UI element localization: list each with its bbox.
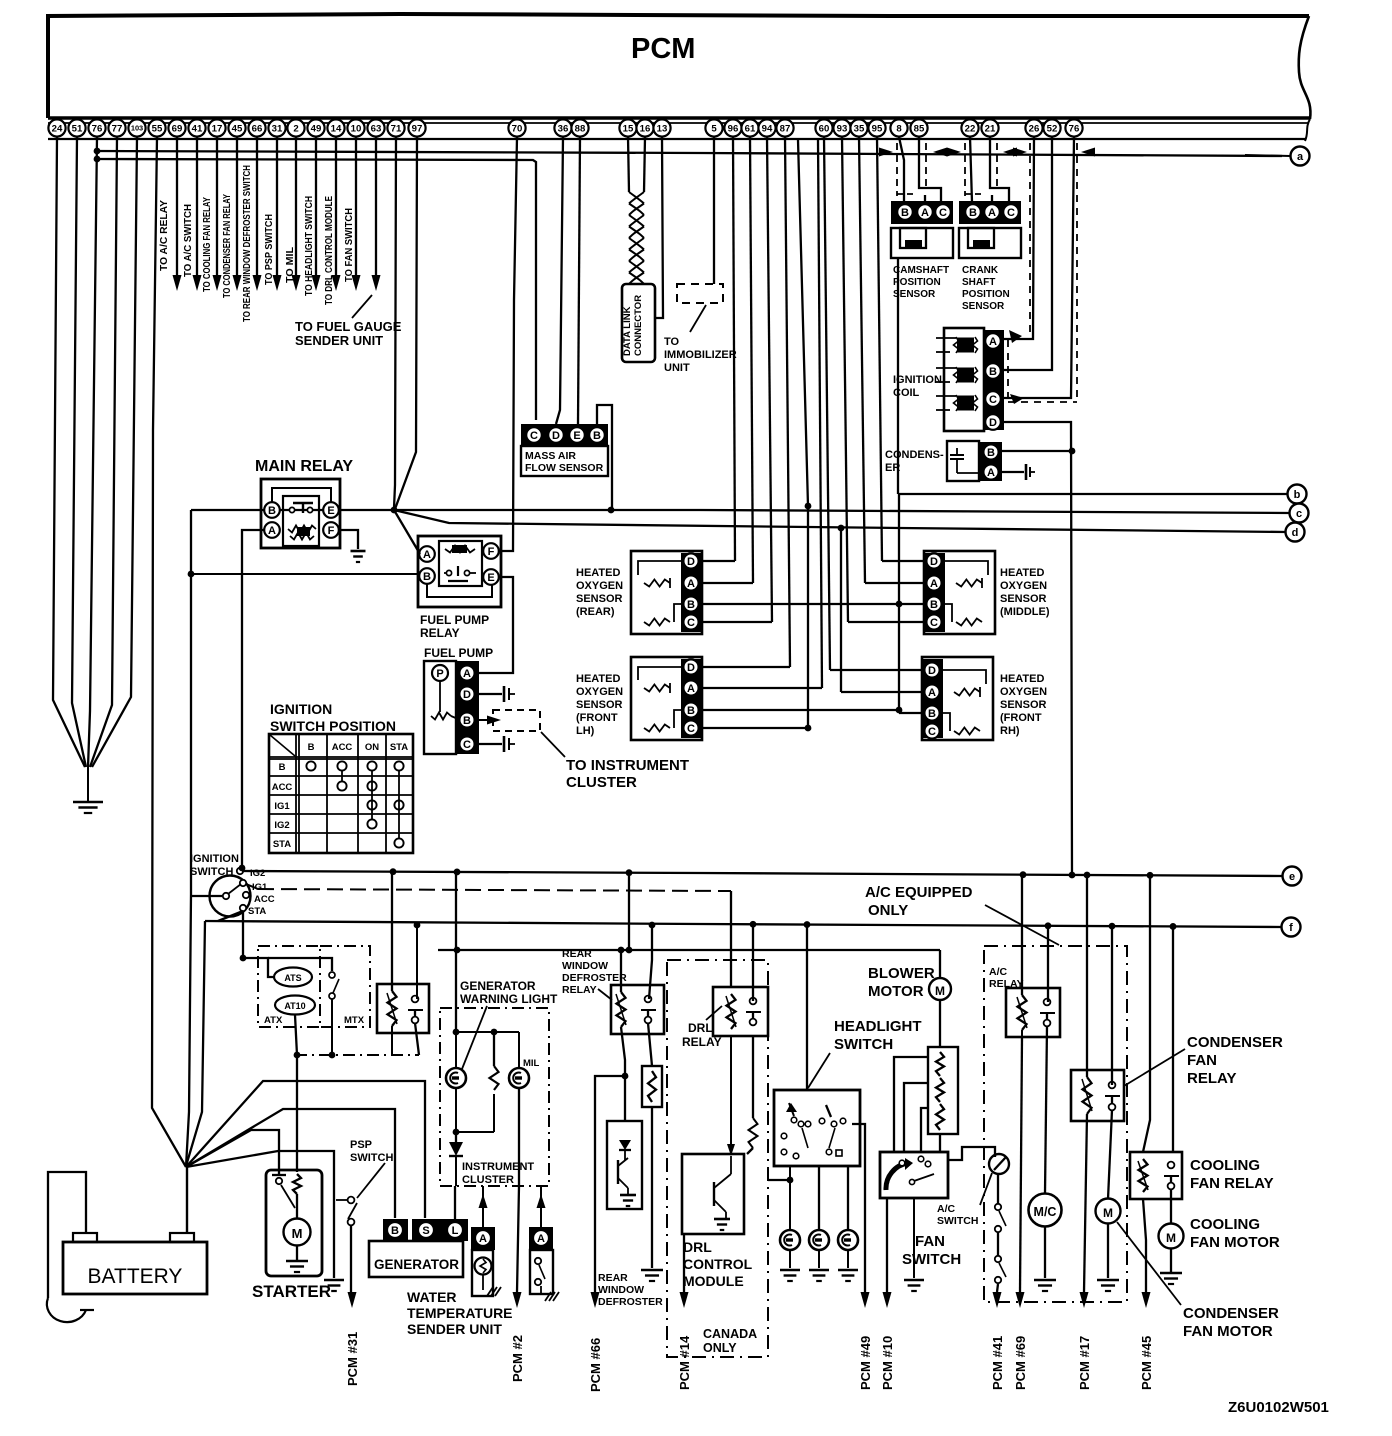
svg-text:IG2: IG2	[274, 820, 289, 831]
heated oxygen sensor (rear)	[631, 551, 702, 634]
wire RH O2 D stub	[830, 669, 922, 671]
svg-text:POSITION: POSITION	[962, 289, 1010, 300]
svg-text:B: B	[463, 715, 471, 727]
svg-text:MODULE: MODULE	[683, 1273, 744, 1289]
PCM pin 76	[1065, 119, 1082, 136]
PCM pin 13	[653, 119, 670, 136]
svg-text:FUEL PUMP: FUEL PUMP	[424, 646, 493, 660]
PCM pin 61	[741, 119, 758, 136]
PCM pin 63	[367, 119, 384, 136]
capacitor on C	[503, 736, 506, 752]
svg-text:B: B	[989, 366, 997, 378]
wire mid O2 A stub	[865, 582, 924, 584]
PCM pin 8	[890, 119, 907, 136]
diode in cluster	[455, 1132, 457, 1142]
PCM pin 96	[724, 119, 741, 136]
wire e to condenser relay coil	[1086, 875, 1088, 1077]
PCM pin 10	[347, 119, 364, 136]
svg-text:85: 85	[914, 123, 925, 134]
arrow PCM#49	[861, 1292, 870, 1308]
PCM pin 2	[287, 119, 304, 136]
wire pin103 to ground	[92, 137, 137, 767]
arrow PCM#14	[680, 1292, 689, 1308]
wire pin24 to ground	[53, 137, 85, 767]
ATS oval	[274, 968, 312, 987]
wire RH O2 B stub	[899, 712, 922, 714]
svg-text:CLUSTER: CLUSTER	[462, 1174, 514, 1186]
PCM pin 66	[248, 119, 265, 136]
twisted pair	[629, 192, 644, 204]
wire mid O2 D stub	[882, 560, 924, 562]
svg-text:CONDENS-: CONDENS-	[885, 449, 944, 461]
svg-text:SENSOR: SENSOR	[576, 699, 623, 711]
wire STA to ATS/MTX	[243, 958, 274, 977]
svg-text:REAR: REAR	[598, 1272, 628, 1284]
svg-text:FAN RELAY: FAN RELAY	[1190, 1175, 1274, 1192]
relay A/C	[1006, 988, 1060, 1037]
heated oxygen sensor (front LH)	[631, 657, 702, 740]
svg-text:HEATED: HEATED	[1000, 567, 1044, 579]
svg-text:TO REAR WINDOW DEFROSTER SWITC: TO REAR WINDOW DEFROSTER SWITCH	[241, 165, 253, 322]
svg-text:DRL: DRL	[683, 1239, 712, 1255]
svg-text:A: A	[268, 525, 276, 537]
svg-text:CONTROL: CONTROL	[683, 1256, 753, 1272]
wire DRL coil to module	[730, 1036, 732, 1146]
PCM pin 88	[571, 119, 588, 136]
svg-text:ER: ER	[885, 462, 900, 474]
PCM pin 51	[68, 119, 85, 136]
arrow PCM#10	[883, 1292, 892, 1308]
svg-text:IMMOBILIZER: IMMOBILIZER	[664, 349, 737, 361]
wire/arrow TO A/C RELAY	[176, 137, 178, 278]
heated oxygen sensor (middle)	[924, 551, 995, 634]
svg-text:15: 15	[623, 123, 634, 134]
PCM pin 87	[776, 119, 793, 136]
wire e to cooling relay coil	[1143, 876, 1150, 1152]
svg-text:87: 87	[780, 123, 791, 134]
battery fan wires	[186, 1081, 425, 1218]
svg-text:AT10: AT10	[284, 1001, 305, 1011]
svg-text:93: 93	[837, 123, 848, 134]
wire AT10 to starter solenoid	[295, 1015, 297, 1172]
svg-text:60: 60	[819, 123, 830, 134]
svg-text:C: C	[989, 394, 997, 406]
crankshaft position sensor	[959, 201, 1021, 224]
PCM pin 35	[850, 119, 867, 136]
wire RH O2 A stub	[841, 691, 922, 693]
battery negative cable	[48, 1172, 86, 1298]
wire STA drop to ATX	[242, 911, 244, 958]
shield arrows on bus a	[879, 148, 893, 157]
svg-text:51: 51	[72, 123, 83, 134]
switch connector A	[529, 1227, 553, 1250]
wire bus c tap to LH O2 C	[798, 140, 808, 728]
svg-text:76: 76	[1069, 123, 1080, 134]
PCM pin 85	[910, 119, 927, 136]
svg-text:S: S	[422, 1225, 429, 1237]
svg-text:103: 103	[131, 124, 143, 133]
wire cluster to water temp A	[482, 1186, 484, 1227]
svg-text:MASS AIR: MASS AIR	[525, 450, 576, 462]
wire pin93 to mid O2 C	[842, 137, 848, 622]
PCM pin 71	[387, 119, 404, 136]
wire pin15	[628, 137, 629, 192]
svg-text:M: M	[1166, 1231, 1176, 1245]
relay starter interlock	[377, 984, 429, 1033]
to instrument cluster label	[541, 732, 565, 757]
PCM pin 97	[408, 119, 425, 136]
wire MAF feed	[97, 159, 536, 420]
instrument cluster dashed box	[440, 1008, 549, 1186]
svg-text:SENDER UNIT: SENDER UNIT	[407, 1321, 502, 1337]
cluster resistor	[493, 1032, 495, 1066]
ground condenser fan motor	[1097, 1279, 1119, 1282]
svg-text:24: 24	[52, 123, 63, 134]
wire bus c to battery	[186, 510, 191, 1167]
svg-text:B: B	[308, 742, 315, 753]
svg-text:d: d	[1292, 527, 1299, 539]
svg-text:FLOW SENSOR: FLOW SENSOR	[525, 462, 604, 474]
ATX dash-dot box	[258, 946, 320, 1027]
svg-text:F: F	[328, 525, 335, 537]
svg-text:RH): RH)	[1000, 725, 1020, 737]
PSP switch	[333, 1196, 335, 1278]
generator warning lamp	[455, 1032, 457, 1068]
svg-text:RELAY: RELAY	[1187, 1070, 1236, 1087]
svg-text:(FRONT: (FRONT	[576, 712, 618, 724]
svg-text:PCM #14: PCM #14	[677, 1335, 692, 1390]
cluster lower bus	[455, 1088, 457, 1132]
svg-text:WATER: WATER	[407, 1289, 457, 1305]
svg-text:SHAFT: SHAFT	[962, 277, 995, 288]
starter	[266, 1170, 322, 1276]
wire fuel pump D to capacitor	[479, 693, 502, 695]
svg-text:70: 70	[512, 123, 523, 134]
data link connector	[622, 284, 655, 362]
PCM pin 77	[108, 119, 125, 136]
svg-text:TO INSTRUMENT: TO INSTRUMENT	[566, 757, 689, 774]
svg-text:A: A	[479, 1233, 487, 1245]
svg-text:D: D	[687, 662, 695, 674]
arrow PCM#31	[348, 1292, 357, 1308]
wire f to DRL contact	[752, 926, 754, 1001]
wire/arrow TO A/C SWITCH	[196, 137, 198, 278]
wire LH O2 D stub	[703, 666, 790, 668]
wire f to relay contact	[416, 925, 418, 999]
svg-text:IG2: IG2	[250, 868, 265, 879]
svg-text:e: e	[1289, 871, 1295, 883]
svg-text:COIL: COIL	[893, 387, 920, 399]
svg-text:CONDENSER: CONDENSER	[1187, 1034, 1283, 1051]
svg-text:PCM #31: PCM #31	[345, 1332, 360, 1386]
junction bus c	[391, 507, 398, 514]
svg-text:77: 77	[112, 123, 123, 134]
wire pin51 to ground	[72, 137, 86, 767]
svg-text:SWITCH: SWITCH	[350, 1152, 393, 1164]
svg-text:B: B	[969, 207, 977, 219]
svg-text:TO HEADLIGHT SWITCH: TO HEADLIGHT SWITCH	[303, 196, 315, 296]
wire MTX to bus	[331, 999, 333, 1055]
svg-text:B: B	[930, 599, 938, 611]
svg-text:B: B	[391, 1225, 399, 1237]
wire cooling coil to PCM#45	[1143, 1199, 1146, 1292]
svg-text:CONNECTOR: CONNECTOR	[633, 295, 644, 356]
svg-text:C: C	[687, 723, 695, 735]
svg-text:E: E	[487, 572, 494, 584]
svg-text:B: B	[687, 599, 695, 611]
svg-text:SENSOR: SENSOR	[1000, 699, 1047, 711]
ground PSP	[324, 1279, 344, 1282]
svg-text:HEADLIGHT: HEADLIGHT	[834, 1018, 922, 1035]
svg-text:A: A	[423, 549, 431, 561]
wire AC contact to MC	[1045, 1026, 1047, 1193]
svg-text:13: 13	[657, 123, 668, 134]
svg-text:C: C	[928, 726, 936, 738]
capacitor on D	[503, 686, 506, 702]
wire LH O2 C stub	[703, 727, 808, 729]
arrow PCM#69	[1016, 1292, 1025, 1308]
svg-text:35: 35	[854, 123, 865, 134]
svg-text:SENSOR: SENSOR	[1000, 593, 1047, 605]
svg-text:A/C: A/C	[989, 966, 1008, 978]
heated oxygen sensor (front RH)	[922, 657, 993, 740]
svg-text:D: D	[989, 417, 997, 429]
wire e to relay coil	[391, 873, 393, 991]
wire rear O2 C stub	[703, 621, 772, 623]
wire battery positive	[186, 1167, 188, 1233]
svg-text:TO FAN SWITCH: TO FAN SWITCH	[343, 208, 355, 282]
wire e drop to bus950	[628, 873, 630, 950]
PCM pin 41	[188, 119, 205, 136]
PCM pin 70	[508, 119, 525, 136]
wire fan switch to AC switch	[948, 1147, 995, 1160]
svg-text:A: A	[463, 668, 471, 680]
svg-text:TO DRL CONTROL MODULE: TO DRL CONTROL MODULE	[323, 196, 335, 305]
svg-text:SWITCH: SWITCH	[834, 1036, 893, 1053]
wire defroster relay contact to fuse	[648, 1023, 652, 1066]
wire pin70 to fuel pump relay F	[499, 137, 517, 551]
svg-text:TO A/C SWITCH: TO A/C SWITCH	[182, 204, 194, 277]
svg-text:14: 14	[331, 123, 342, 134]
wire pin76 to ground	[88, 137, 97, 767]
svg-text:HEATED: HEATED	[1000, 673, 1044, 685]
svg-text:M: M	[1103, 1206, 1113, 1220]
wire to rear window defroster	[651, 1107, 653, 1268]
svg-text:DEFROSTER: DEFROSTER	[598, 1296, 663, 1308]
svg-text:55: 55	[152, 123, 163, 134]
PCM pin 45	[228, 119, 245, 136]
wire condenser B to bus	[1002, 450, 1072, 452]
camshaft sensor shield dashes	[896, 143, 898, 196]
svg-text:c: c	[1296, 508, 1302, 520]
svg-text:A: A	[930, 578, 938, 590]
svg-text:SENSOR: SENSOR	[893, 289, 936, 300]
node d	[1286, 523, 1305, 542]
svg-text:FUEL PUMP: FUEL PUMP	[420, 613, 489, 627]
camshaft position sensor	[891, 201, 953, 224]
PCM pin 49	[307, 119, 324, 136]
immobilizer dashed box	[677, 284, 723, 303]
water temperature sender unit	[471, 1227, 495, 1250]
fan switch box	[880, 1152, 948, 1198]
wire/arrow TO PSP SWITCH	[276, 137, 278, 278]
svg-text:STA: STA	[390, 742, 408, 753]
PCM pin 55	[148, 119, 165, 136]
svg-text:IGNITION: IGNITION	[270, 701, 332, 717]
defroster fuse	[642, 1066, 662, 1107]
wire pin85 to camshaft C	[919, 137, 941, 202]
svg-text:E: E	[573, 430, 580, 442]
svg-text:TEMPERATURE: TEMPERATURE	[407, 1305, 513, 1321]
battery	[73, 1233, 97, 1242]
wire main relay F to ground	[338, 530, 358, 549]
svg-text:M: M	[935, 984, 945, 998]
svg-text:ATX: ATX	[264, 1015, 283, 1026]
wire condenser A to capacitor	[1002, 471, 1024, 473]
PCM pin 26	[1025, 119, 1042, 136]
wire LH O2 B stub	[703, 709, 899, 711]
svg-text:10: 10	[351, 123, 362, 134]
wire cooling contact to motor	[1170, 1189, 1172, 1224]
svg-text:C: C	[463, 739, 471, 751]
svg-text:DEFROSTER: DEFROSTER	[562, 972, 627, 984]
wire tap to ignition switch B	[190, 895, 222, 897]
wire pin94 to rear O2 C	[767, 137, 772, 622]
arrow PCM#17	[1080, 1292, 1089, 1308]
wire AC coil to PCM#69	[1021, 1030, 1023, 1037]
wire/arrow TO HEADLIGHT SWITCH	[315, 137, 317, 278]
svg-text:ON: ON	[365, 742, 379, 753]
svg-text:FAN: FAN	[1187, 1052, 1217, 1069]
PCM pin 69	[168, 119, 185, 136]
svg-text:CLUSTER: CLUSTER	[566, 774, 637, 791]
svg-text:OXYGEN: OXYGEN	[1000, 686, 1047, 698]
svg-text:a: a	[1297, 151, 1304, 163]
svg-text:INSTRUMENT: INSTRUMENT	[462, 1161, 534, 1173]
svg-text:B: B	[901, 207, 909, 219]
svg-text:16: 16	[640, 123, 651, 134]
svg-text:A: A	[989, 336, 997, 348]
wire fuel pump B to instrument cluster	[479, 719, 489, 721]
wire sense to PCM#66	[595, 1076, 625, 1292]
wire pin8 to camshaft B	[899, 137, 904, 202]
arrow PCM#2	[513, 1292, 522, 1308]
svg-text:BLOWER: BLOWER	[868, 965, 935, 982]
wire/arrow TO COOLING FAN RELAY	[216, 137, 218, 278]
wire pin71 to bus junction	[394, 137, 396, 508]
arrow PCM#45	[1142, 1292, 1151, 1308]
wire pin88 to MAF E	[578, 137, 580, 424]
svg-text:A: A	[687, 578, 695, 590]
blower motor	[939, 950, 941, 978]
svg-text:76: 76	[92, 123, 103, 134]
svg-text:63: 63	[371, 123, 382, 134]
PCM pin 16	[636, 119, 653, 136]
ignition switch	[210, 876, 251, 917]
arrow PCM#41	[993, 1292, 1002, 1308]
crankshaft sensor shield dashes	[964, 143, 966, 196]
svg-text:ACC: ACC	[254, 894, 275, 905]
wire pin16	[644, 137, 645, 192]
svg-text:ACC: ACC	[332, 742, 353, 753]
wire headlight to PCM#49	[852, 1124, 865, 1292]
condenser	[947, 441, 979, 481]
svg-text:(REAR): (REAR)	[576, 606, 615, 618]
svg-text:TO CONDENSER FAN RELAY: TO CONDENSER FAN RELAY	[221, 194, 233, 298]
svg-text:D: D	[552, 430, 560, 442]
svg-text:SWITCH: SWITCH	[902, 1251, 961, 1268]
relay MAIN RELAY	[261, 479, 340, 548]
svg-text:PCM #41: PCM #41	[990, 1336, 1005, 1390]
wire e to cluster bus	[455, 873, 457, 1032]
svg-text:CAMSHAFT: CAMSHAFT	[893, 265, 949, 276]
svg-text:CRANK: CRANK	[962, 265, 999, 276]
wire module to PCM#14	[683, 1234, 685, 1292]
PCM pin 103	[128, 119, 145, 136]
PCM pin 60	[815, 119, 832, 136]
wire bus c	[191, 510, 1290, 513]
svg-text:A/C: A/C	[937, 1203, 956, 1215]
svg-text:PCM #17: PCM #17	[1077, 1336, 1092, 1390]
stub camshaft A	[924, 195, 926, 202]
svg-text:FAN MOTOR: FAN MOTOR	[1183, 1323, 1273, 1340]
wire bus b	[898, 493, 1288, 495]
svg-text:b: b	[1294, 489, 1301, 501]
svg-text:M/C: M/C	[1034, 1205, 1057, 1219]
svg-text:22: 22	[965, 123, 976, 134]
wire fuel pump C to capacitor	[479, 743, 502, 745]
PCM pin 5	[705, 119, 722, 136]
wire bus d	[394, 510, 1286, 532]
wire mid O2 C stub	[848, 621, 924, 623]
wire bus IG1	[246, 884, 258, 889]
svg-text:8: 8	[896, 123, 902, 134]
wire pin22 to crank B	[970, 137, 972, 202]
svg-text:41: 41	[192, 123, 203, 134]
svg-text:COOLING: COOLING	[1190, 1216, 1260, 1233]
svg-text:A: A	[537, 1233, 545, 1245]
svg-text:WINDOW: WINDOW	[562, 960, 608, 972]
stub crank A	[991, 195, 993, 202]
svg-text:L: L	[452, 1225, 459, 1237]
headlight switch box	[774, 1090, 860, 1166]
wire fan switch ground	[913, 1198, 915, 1278]
svg-text:PCM: PCM	[631, 33, 695, 65]
wire pin77 to ground	[90, 137, 117, 767]
svg-text:B: B	[423, 571, 431, 583]
wire LH O2 A stub	[703, 687, 822, 689]
svg-text:TO FUEL GAUGE: TO FUEL GAUGE	[295, 319, 402, 334]
svg-text:45: 45	[232, 123, 243, 134]
svg-text:A: A	[988, 207, 996, 219]
svg-text:ATS: ATS	[284, 973, 301, 983]
svg-text:ACC: ACC	[272, 782, 293, 793]
svg-text:GENERATOR: GENERATOR	[374, 1257, 459, 1272]
wire f drop left to battery	[186, 921, 205, 1166]
svg-text:HEATED: HEATED	[576, 567, 620, 579]
bus at y950	[438, 949, 940, 951]
svg-text:F: F	[488, 546, 495, 558]
svg-text:TO MIL: TO MIL	[284, 246, 296, 283]
wire MAF B to bus c	[597, 405, 612, 510]
svg-text:TO A/C RELAY: TO A/C RELAY	[158, 200, 170, 271]
node a	[1245, 155, 1290, 156]
wire pin61 to rear O2 A	[750, 137, 753, 583]
wire e to AC relay coil	[1021, 875, 1023, 995]
svg-text:E: E	[327, 505, 334, 517]
relay cooling fan	[1130, 1152, 1182, 1199]
resistor taps	[894, 1057, 928, 1152]
